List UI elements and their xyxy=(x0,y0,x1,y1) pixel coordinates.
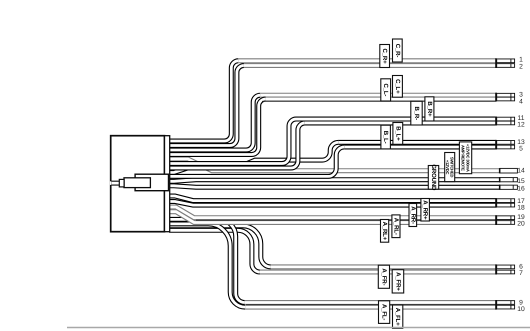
label GROUND (pin 16) xyxy=(428,164,438,191)
wire stripe: black middle of A_RL pair (pins 19/20) xyxy=(196,219,496,221)
svg-text:A_RR+: A_RR+ xyxy=(422,200,429,220)
wire A_RR+ (pin 17) xyxy=(169,196,496,201)
svg-text:C_R+: C_R+ xyxy=(381,49,388,65)
svg-text:5: 5 xyxy=(519,146,523,153)
wire C_R+ (pin 2) run xyxy=(244,65,496,67)
terminal pin 16 xyxy=(499,185,518,190)
terminal pins 13/5 xyxy=(495,140,514,150)
svg-text:A_FL-: A_FL- xyxy=(381,304,388,320)
svg-text:7: 7 xyxy=(519,270,523,277)
svg-text:20: 20 xyxy=(517,221,525,228)
label A_RL+ (pin 20) xyxy=(381,220,389,243)
svg-text:1: 1 xyxy=(519,57,523,64)
wire C_R- (pin 1) bend xyxy=(169,61,238,141)
connector latch middle tab xyxy=(124,178,150,188)
svg-text:10: 10 xyxy=(517,306,525,313)
svg-text:B_R-: B_R- xyxy=(413,106,420,120)
wire C_R- (pin 1) run xyxy=(238,60,496,62)
terminal pin 14 xyxy=(499,168,518,173)
wire A_FL- (pin 9) run xyxy=(245,302,496,304)
wire A_FL+ (pin 10) run xyxy=(245,306,496,308)
wire AMP REMOTE (pin 14) xyxy=(169,159,500,171)
svg-text:AMP REMOTE: AMP REMOTE xyxy=(461,145,466,171)
wire B_L+ (pin 13) bend xyxy=(169,142,338,172)
terminal pins 11/12 xyxy=(495,117,514,126)
label A_RR+ (pin 17) xyxy=(421,199,430,222)
label C_R+ (pin 2) xyxy=(380,45,390,68)
svg-text:C_R-: C_R- xyxy=(394,44,401,58)
terminal pins 9/10 xyxy=(495,300,514,310)
connector latch outer tab xyxy=(135,174,168,191)
svg-text:SWITCHED: SWITCHED xyxy=(450,157,455,177)
label B_L+ (pin 13) xyxy=(393,123,403,145)
wire B_L+ (pin 13) run xyxy=(338,141,496,143)
svg-text:A_RL+: A_RL+ xyxy=(381,222,388,241)
svg-text:B_L-: B_L- xyxy=(382,131,389,144)
wire A_FL- (pin 9) bend xyxy=(169,219,245,302)
label A_RR- (pin 18) xyxy=(409,204,417,227)
svg-text:18: 18 xyxy=(517,205,525,212)
label C_R- (pin 1) xyxy=(393,39,403,62)
wire A_RR- (pin 18) xyxy=(169,202,496,206)
label +12VDC SWITCHED (pin 15) xyxy=(445,153,455,182)
svg-text:16: 16 xyxy=(517,186,525,193)
svg-text:C_L-: C_L- xyxy=(382,84,389,97)
svg-text:4: 4 xyxy=(519,98,523,105)
label C_L- (pin 4) xyxy=(381,79,391,101)
wire B_R+ (pin 11) run xyxy=(296,118,496,120)
svg-text:+12VDC: +12VDC xyxy=(445,160,450,175)
wire C_L+ (pin 3) bend xyxy=(169,95,260,150)
svg-text:B_L+: B_L+ xyxy=(394,126,401,141)
label B_R+ (pin 11) xyxy=(425,97,434,121)
label A_FR+ (pin 7) xyxy=(392,270,404,293)
svg-text:2: 2 xyxy=(519,64,523,71)
wire C_L- (pin 4) bend xyxy=(169,99,266,155)
svg-text:A_FR+: A_FR+ xyxy=(394,272,401,291)
wire C_L+ (pin 3) run xyxy=(260,94,496,96)
label A_FL- (pin 9) xyxy=(379,301,390,324)
label A_FR- (pin 6) xyxy=(378,265,389,288)
wire B_R- (pin 12) run xyxy=(305,122,496,124)
wire A_FR+ (pin 7) bend xyxy=(169,230,260,272)
terminal pins 19/20 xyxy=(495,215,514,225)
connector housing main body xyxy=(111,136,165,232)
svg-text:A_FR-: A_FR- xyxy=(380,268,387,285)
wire A_FR- (pin 6) bend xyxy=(169,226,271,267)
terminal pins 3/4 xyxy=(495,93,514,102)
label B_R- (pin 12) xyxy=(411,101,422,125)
terminal pins 17/18 xyxy=(495,198,514,208)
svg-text:15: 15 xyxy=(517,178,525,185)
wire B_R+ (pin 11) bend xyxy=(169,119,296,163)
wire A_FR+ (pin 7) run xyxy=(260,271,496,273)
svg-text:12: 12 xyxy=(517,122,525,129)
connector latch release channel xyxy=(112,181,120,185)
terminal pin 15 xyxy=(499,177,518,182)
svg-text:GROUND: GROUND xyxy=(430,164,437,191)
label C_L+ (pin 3) xyxy=(393,76,403,98)
wire A_RL- (pin 19) xyxy=(169,207,496,218)
svg-text:14: 14 xyxy=(517,168,525,175)
wire GROUND (pin 16) xyxy=(169,186,500,187)
pin numbers xyxy=(517,57,525,314)
wire B_L- (pin 5) bend xyxy=(169,147,344,176)
terminal pins 6/7 xyxy=(495,264,514,274)
label A_FL+ (pin 10) xyxy=(393,305,403,328)
svg-text:A_RL-: A_RL- xyxy=(392,218,399,235)
wire C_R+ (pin 2) bend xyxy=(169,66,244,146)
bottom separator rule xyxy=(67,327,530,329)
svg-text:B_R+: B_R+ xyxy=(426,101,433,117)
label AMP REMOTE (pin 14) xyxy=(459,142,471,174)
connector latch nub xyxy=(119,179,124,187)
terminal pins 1/2 xyxy=(495,58,514,68)
label B_L- (pin 5) xyxy=(381,125,391,149)
wire +12VDC SWITCHED (pin 15) xyxy=(169,180,500,182)
wire stripe: black edge under C_L- pair (pins 3/4) xyxy=(262,100,496,102)
wire A_RL+ (pin 20) xyxy=(169,212,496,223)
wire B_L- (pin 5) run xyxy=(344,146,496,148)
svg-text:A_FL+: A_FL+ xyxy=(394,308,401,326)
wire A_FL+ (pin 10) bend xyxy=(169,224,245,307)
wire A_FR- (pin 6) run xyxy=(271,266,496,268)
connector rear flange strip xyxy=(165,136,170,232)
wire stripe: black middle of A_FL pair (pins 9/10) xyxy=(246,304,496,306)
wire C_L- (pin 4) run xyxy=(266,98,496,100)
svg-text:A_RR-: A_RR- xyxy=(409,206,416,224)
label A_RL- (pin 19) xyxy=(392,215,400,238)
svg-text:C_L+: C_L+ xyxy=(394,79,401,94)
wire B_R- (pin 12) bend xyxy=(169,123,305,168)
svg-text:+12VDC 300mA: +12VDC 300mA xyxy=(465,144,470,172)
